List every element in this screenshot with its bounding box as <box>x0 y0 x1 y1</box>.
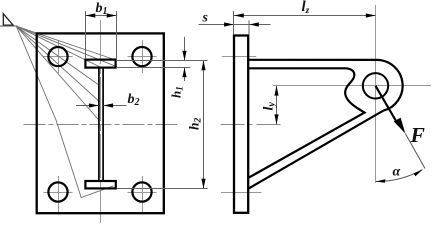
dimension ly <box>276 86 278 124</box>
weld symbol triangle <box>0 14 18 26</box>
dimension b2 <box>76 105 127 107</box>
hole bottom-right <box>132 182 151 201</box>
arm bottom edge, neck curve, brace upper edge <box>249 68 365 177</box>
dimension b1 <box>86 11 117 59</box>
wire leader line 2 <box>16 26 117 67</box>
node boss vertical centerline / lz-alpha extension <box>375 5 377 183</box>
node top hole centerline (side view) <box>222 56 256 58</box>
I-beam top flange <box>85 60 115 68</box>
wire leader line 7 <box>16 26 99 120</box>
wire leader line 1 <box>16 26 116 60</box>
plate (side view) <box>234 36 248 213</box>
I-beam web <box>99 68 103 181</box>
node main vertical centerline (left view) <box>100 20 102 223</box>
dimension s <box>199 11 271 34</box>
node boss horizontal centerline <box>273 85 431 87</box>
svg-text:s: s <box>202 11 209 26</box>
wire leader line 8 kinked <box>16 26 113 197</box>
hole top-left <box>48 47 67 66</box>
node hole centerlines top-right <box>128 40 157 73</box>
node bottom hole centerline (side view) <box>221 192 262 194</box>
node hole centerlines bottom-left <box>44 176 73 215</box>
svg-text:α: α <box>393 165 401 180</box>
boss hole <box>363 73 388 98</box>
brace lower edge <box>249 111 383 189</box>
dimension h1 <box>116 37 208 81</box>
wire leader line 3 <box>16 26 103 68</box>
I-beam bottom flange <box>85 181 115 188</box>
force F extension line <box>405 134 425 169</box>
hole bottom-left <box>48 182 67 201</box>
dimension h2 <box>117 61 208 189</box>
dimension lz <box>234 15 376 17</box>
node hole centerlines top-left <box>44 40 73 73</box>
svg-text:F: F <box>410 123 425 147</box>
force F arrow <box>376 86 398 124</box>
plate (front view) <box>37 33 164 213</box>
node hole centerlines bottom-right <box>128 176 157 215</box>
hole top-right <box>132 47 151 66</box>
wire leader line 6 <box>16 26 99 101</box>
arm top edge and boss outer arc <box>249 60 403 111</box>
wire leader line 5 <box>16 26 99 85</box>
node mid horizontal centerline (left view) <box>24 124 179 126</box>
angle alpha arc <box>376 170 423 182</box>
node mid centerline (side view) <box>221 124 284 126</box>
